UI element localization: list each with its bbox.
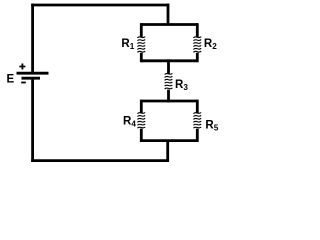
battery plus mark [19, 64, 25, 70]
wire: R1 branch leads [140, 23, 143, 62]
resistor R1 [137, 37, 145, 53]
battery E [17, 73, 49, 78]
svg-text:R4: R4 [123, 115, 136, 128]
label E [7, 74, 15, 86]
node: R4R5 parallel box rails [141, 101, 197, 141]
wire: R4 branch leads [140, 100, 143, 142]
svg-text:E: E [7, 74, 15, 86]
label R4 [123, 115, 136, 128]
wire: R5 branch leads [196, 100, 199, 142]
resistor R5 [193, 113, 201, 129]
wire: top horizontal from left wall to drop point [31, 4, 169, 7]
svg-text:R5: R5 [205, 120, 218, 133]
wire: riser from bottom wire up to R4R5 box bottom rail [166, 140, 169, 162]
svg-text:R2: R2 [204, 38, 217, 51]
label R3 [175, 79, 188, 92]
resistor R4 [137, 113, 145, 129]
node: R1R2 parallel box rails [141, 25, 197, 61]
resistor R2 [193, 37, 201, 53]
svg-text:R1: R1 [121, 38, 134, 51]
label R1 [121, 38, 134, 51]
resistor R3 [165, 73, 173, 89]
svg-text:R3: R3 [175, 79, 188, 92]
wire: bottom horizontal from left wall to riser [31, 159, 169, 162]
label R5 [205, 120, 218, 133]
wire: left vertical wall lower (battery - plate to bottom wire) [31, 78, 34, 162]
wire: R2 branch leads [196, 23, 199, 62]
wire: drop from top wire into R1R2 box top rail [167, 4, 170, 26]
wire: R3 leads (stem between the two parallel boxes) [167, 59, 170, 102]
label R2 [204, 38, 217, 51]
wire: left vertical wall upper (top wire to battery + plate) [31, 4, 34, 72]
battery minus mark [21, 82, 26, 84]
